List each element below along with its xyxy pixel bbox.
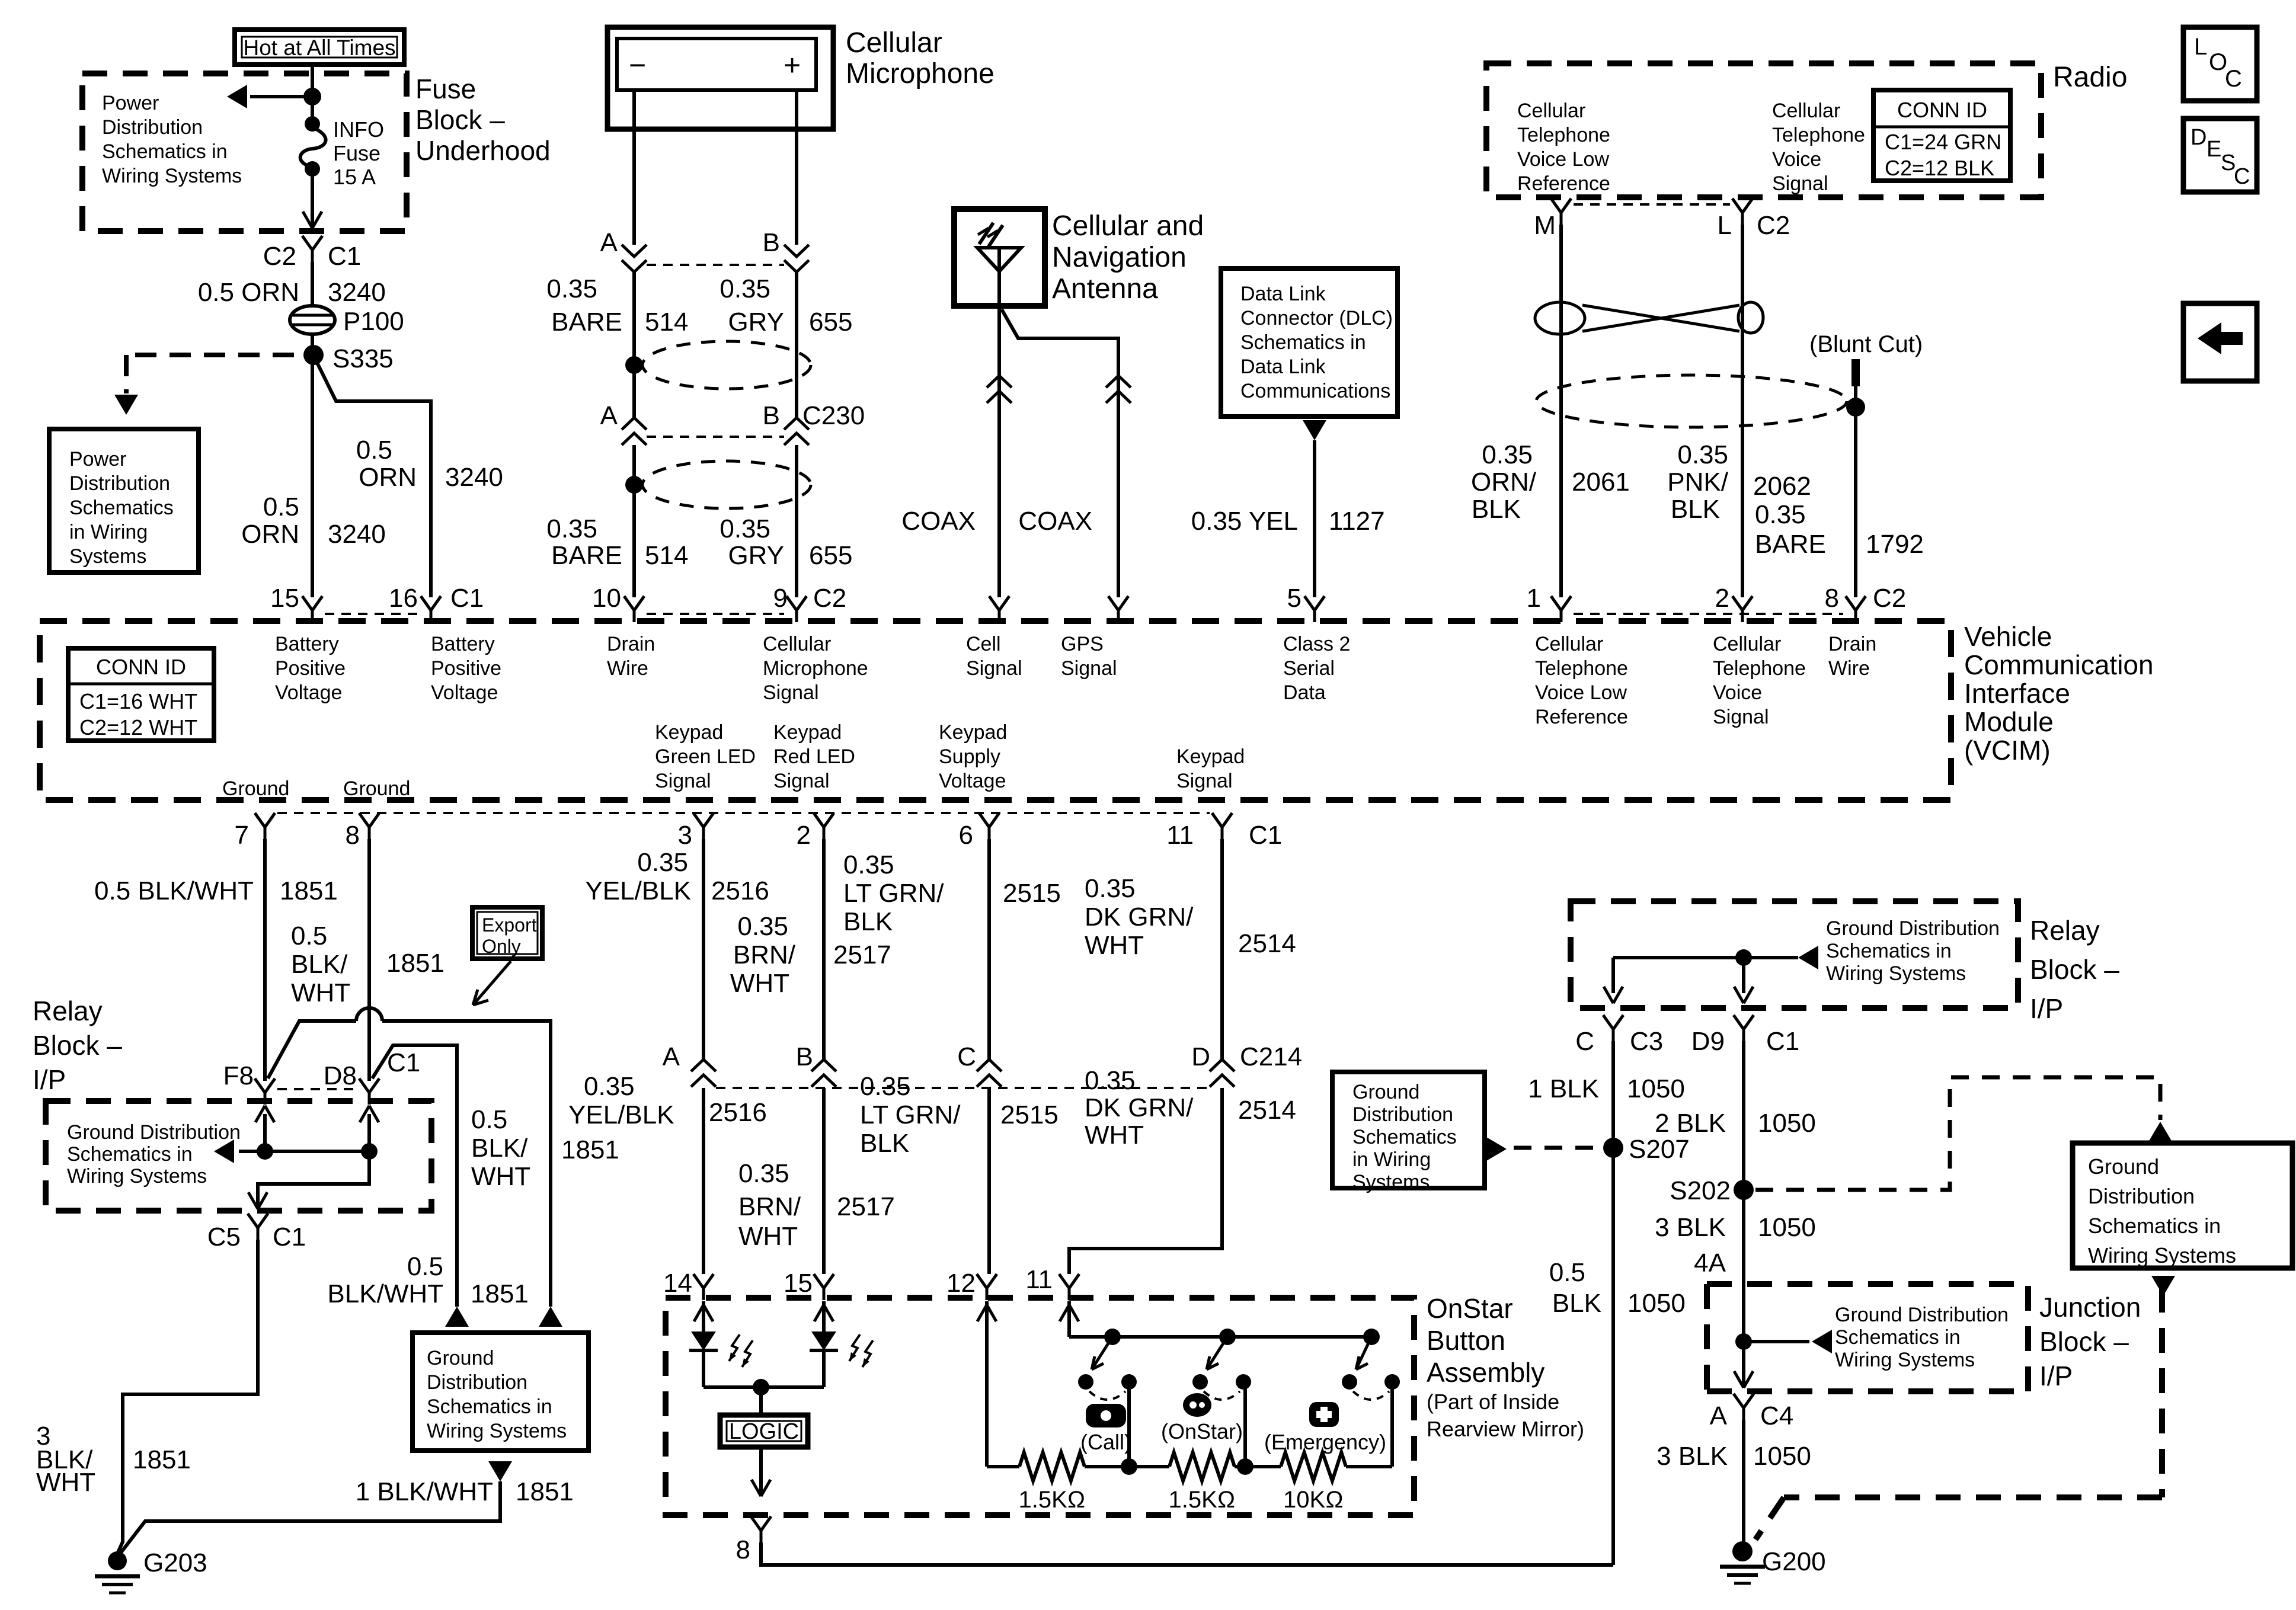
svg-text:BARE: BARE xyxy=(551,308,622,337)
junction box: Hot at All Times label xyxy=(235,30,404,65)
svg-text:in Wiring: in Wiring xyxy=(1352,1148,1431,1171)
blunt cut stub xyxy=(1851,359,1860,597)
wire 1 BLK/WHT to G203 xyxy=(121,1461,512,1553)
label 0.35 BARE 1792 xyxy=(1755,500,1924,559)
svg-text:Schematics in: Schematics in xyxy=(1240,331,1366,354)
svg-text:Positive: Positive xyxy=(431,657,501,680)
svg-text:Export: Export xyxy=(482,914,537,936)
label OnStar Button Assembly xyxy=(1427,1293,1584,1441)
svg-text:INFO: INFO xyxy=(333,117,384,142)
svg-text:GPS: GPS xyxy=(1061,633,1104,655)
pin 7 VCIM bottom xyxy=(235,813,275,850)
svg-text:1050: 1050 xyxy=(1758,1213,1816,1242)
svg-text:Ground: Ground xyxy=(343,777,410,800)
dashed link S202 to note xyxy=(1755,1077,2172,1190)
svg-text:Systems: Systems xyxy=(69,545,146,568)
svg-text:Ground: Ground xyxy=(1352,1081,1419,1103)
pin 1 VCIM xyxy=(1527,584,1571,622)
svg-text:Schematics in: Schematics in xyxy=(1826,940,1952,962)
svg-text:Signal: Signal xyxy=(655,770,711,792)
wire drain upper xyxy=(632,272,636,418)
wire cell signal coax xyxy=(997,306,1001,597)
svg-text:YEL/BLK: YEL/BLK xyxy=(568,1100,674,1129)
svg-text:(Blunt Cut): (Blunt Cut) xyxy=(1809,331,1923,357)
label keypad signal xyxy=(1176,745,1245,792)
svg-text:Battery: Battery xyxy=(431,633,495,655)
label 0.35 LT GRN/BLK 2515 upper xyxy=(843,850,1061,936)
label 0.35 GRY 655 (upper) xyxy=(720,274,852,337)
svg-text:C1=16 WHT: C1=16 WHT xyxy=(79,689,197,713)
wire keypad green upper xyxy=(702,839,705,1060)
pin M radio xyxy=(1534,199,1571,240)
svg-text:Signal: Signal xyxy=(1713,706,1769,728)
svg-text:Cell: Cell xyxy=(966,633,1001,655)
svg-text:COAX: COAX xyxy=(901,507,976,536)
wire 3240 upper segment xyxy=(311,262,314,309)
svg-text:WHT: WHT xyxy=(36,1468,95,1497)
label Relay Block IP left xyxy=(33,996,122,1095)
pin 3 VCIM bottom xyxy=(678,813,714,850)
svg-text:1050: 1050 xyxy=(1627,1074,1685,1103)
connector gps coax xyxy=(1106,376,1131,403)
label 2 BLK 1050 xyxy=(1655,1109,1816,1138)
svg-text:1 BLK/WHT: 1 BLK/WHT xyxy=(356,1477,493,1506)
label 0.35 DK GRN/WHT 2514 upper xyxy=(1085,874,1296,960)
switch emergency xyxy=(1342,1337,1400,1400)
label 0.35 BARE 514 (lower) xyxy=(546,514,688,570)
cellular microphone box xyxy=(607,27,833,129)
svg-text:BLK: BLK xyxy=(843,907,893,936)
svg-text:Schematics in: Schematics in xyxy=(427,1395,552,1418)
svg-text:1851: 1851 xyxy=(280,876,338,905)
svg-text:BRN/: BRN/ xyxy=(733,940,796,969)
svg-text:WHT: WHT xyxy=(471,1162,530,1191)
svg-text:B: B xyxy=(796,1042,813,1071)
label (Call) xyxy=(1080,1430,1131,1454)
wire mic signal lower xyxy=(795,445,798,597)
node switch feed emergency xyxy=(1363,1329,1380,1345)
svg-text:C1: C1 xyxy=(387,1048,420,1077)
svg-text:Ground Distribution: Ground Distribution xyxy=(67,1121,241,1144)
wire 1050 D9 segment xyxy=(1742,1041,1745,1542)
svg-text:Fuse: Fuse xyxy=(415,73,476,104)
wire led common xyxy=(703,1379,824,1395)
svg-text:Block –: Block – xyxy=(415,104,505,135)
note ground distribution (relay right) xyxy=(1826,917,2000,985)
svg-text:Signal: Signal xyxy=(763,681,819,704)
svg-text:8: 8 xyxy=(1825,584,1839,613)
junction block IP dashed outline xyxy=(1707,1284,2162,1539)
wire relay right bus xyxy=(1604,946,1818,1003)
svg-text:S335: S335 xyxy=(332,344,394,373)
svg-text:1050: 1050 xyxy=(1758,1109,1816,1138)
svg-text:Voice Low: Voice Low xyxy=(1535,681,1627,704)
label cellular telephone voice signal (radio) xyxy=(1772,100,1865,195)
svg-text:P100: P100 xyxy=(343,307,404,336)
svg-text:Data Link: Data Link xyxy=(1240,356,1326,378)
svg-text:0.5: 0.5 xyxy=(1549,1258,1585,1287)
svg-text:WHT: WHT xyxy=(291,978,350,1007)
splice S335 xyxy=(303,345,324,365)
svg-text:2061: 2061 xyxy=(1572,468,1630,497)
svg-text:G203: G203 xyxy=(143,1548,207,1577)
connector B C230 xyxy=(763,401,865,445)
svg-text:Wiring Systems: Wiring Systems xyxy=(1826,962,1966,985)
svg-text:Wiring Systems: Wiring Systems xyxy=(67,1165,207,1188)
svg-text:Data Link: Data Link xyxy=(1240,283,1326,305)
pin D8 relay block xyxy=(324,1048,421,1105)
svg-text:Distribution: Distribution xyxy=(69,472,170,495)
svg-text:0.5 ORN: 0.5 ORN xyxy=(198,278,299,307)
svg-text:Connector (DLC): Connector (DLC) xyxy=(1240,307,1393,329)
wire keypad green lower xyxy=(702,1088,705,1274)
shield ellipse radio pair xyxy=(1536,375,1865,427)
svg-text:BLK: BLK xyxy=(1671,495,1720,524)
svg-text:Keypad: Keypad xyxy=(939,721,1007,744)
svg-text:2515: 2515 xyxy=(1000,1100,1059,1129)
label battery positive voltage 15 xyxy=(275,633,346,704)
svg-text:Voice: Voice xyxy=(1713,681,1762,704)
svg-text:B: B xyxy=(763,228,780,257)
svg-text:Communications: Communications xyxy=(1240,380,1390,402)
label G203 xyxy=(143,1548,207,1577)
svg-text:D9: D9 xyxy=(1691,1027,1725,1056)
svg-text:1127: 1127 xyxy=(1329,507,1385,536)
pin F8 relay block xyxy=(223,1061,275,1105)
label 0.35 DK GRN/WHT 2514 lower xyxy=(1085,1066,1296,1150)
pin 14 onstar xyxy=(663,1269,714,1300)
pin 11 VCIM bottom xyxy=(1166,813,1282,850)
svg-text:15: 15 xyxy=(270,584,299,613)
wire cellular voice signal xyxy=(1741,225,1744,597)
svg-text:2 BLK: 2 BLK xyxy=(1655,1109,1726,1138)
note ground distribution (right solid box) xyxy=(2073,1143,2292,1268)
pin 5 VCIM xyxy=(1287,584,1325,622)
grommet P100 xyxy=(290,306,335,334)
svg-text:2514: 2514 xyxy=(1238,929,1296,958)
svg-text:Reference: Reference xyxy=(1517,172,1610,195)
svg-text:L: L xyxy=(2194,34,2207,60)
svg-text:1050: 1050 xyxy=(1753,1442,1811,1471)
svg-text:Ground: Ground xyxy=(2088,1154,2159,1179)
connector A C214 xyxy=(663,1042,716,1087)
node switch feed onstar xyxy=(1219,1329,1236,1345)
label class 2 serial data xyxy=(1283,633,1350,704)
label 0.35 BARE 514 (upper) xyxy=(546,274,688,337)
svg-text:Microphone: Microphone xyxy=(763,657,868,680)
svg-text:15: 15 xyxy=(784,1269,813,1298)
svg-text:11: 11 xyxy=(1025,1265,1053,1294)
connector dashes pins 10-9 xyxy=(647,613,784,615)
svg-text:Telephone: Telephone xyxy=(1535,657,1628,680)
svg-text:Ground Distribution: Ground Distribution xyxy=(1826,917,2000,940)
svg-text:9: 9 xyxy=(773,584,788,613)
icon onstar button xyxy=(1183,1393,1211,1417)
wire keypad supply lower xyxy=(987,1088,991,1274)
connector dashes mic xyxy=(647,264,784,266)
label 0.35 LT GRN/BLK 2515 lower xyxy=(860,1072,1059,1158)
svg-text:0.35: 0.35 xyxy=(584,1072,635,1101)
svg-text:Wiring Systems: Wiring Systems xyxy=(1835,1349,1975,1371)
wire junction exit xyxy=(1734,1371,1753,1388)
resistor 1.5K onstar xyxy=(1129,1452,1248,1481)
svg-text:3: 3 xyxy=(678,821,692,850)
node bus dot F8 xyxy=(257,1143,273,1160)
wire mic signal upper xyxy=(795,272,798,418)
wire keypad signal lower jog xyxy=(1069,1088,1222,1274)
label cellular microphone signal 9 xyxy=(763,633,868,704)
svg-text:16: 16 xyxy=(389,584,418,613)
svg-text:Voice: Voice xyxy=(1772,148,1821,171)
svg-text:(Emergency): (Emergency) xyxy=(1264,1430,1386,1454)
svg-text:Block –: Block – xyxy=(2039,1326,2129,1357)
svg-text:+: + xyxy=(784,49,801,82)
svg-text:Schematics in: Schematics in xyxy=(1835,1326,1961,1349)
svg-text:C: C xyxy=(957,1042,976,1071)
svg-text:Keypad: Keypad xyxy=(773,721,842,744)
note ground distribution (relay left) xyxy=(67,1121,241,1188)
label Fuse Block - Underhood xyxy=(415,73,551,166)
pin 2 VCIM bottom xyxy=(797,813,834,850)
svg-text:514: 514 xyxy=(645,308,688,337)
svg-text:Wiring Systems: Wiring Systems xyxy=(2088,1243,2236,1267)
pin C5/C1 relay block xyxy=(207,1214,306,1251)
svg-text:Button: Button xyxy=(1427,1325,1505,1356)
svg-text:0.35 YEL: 0.35 YEL xyxy=(1191,507,1298,536)
svg-text:1.5KΩ: 1.5KΩ xyxy=(1168,1487,1235,1513)
svg-text:A: A xyxy=(600,401,618,430)
svg-text:Rearview Mirror): Rearview Mirror) xyxy=(1427,1417,1584,1441)
svg-text:2516: 2516 xyxy=(709,1098,767,1127)
svg-text:Block –: Block – xyxy=(2030,954,2119,985)
node bus dot D8 xyxy=(361,1143,378,1160)
pin 11 onstar xyxy=(1025,1265,1079,1300)
label (Blunt Cut) xyxy=(1809,331,1923,357)
svg-text:Wiring Systems: Wiring Systems xyxy=(102,165,242,187)
svg-text:0.5: 0.5 xyxy=(407,1252,443,1281)
svg-text:C214: C214 xyxy=(1240,1042,1302,1071)
svg-text:8: 8 xyxy=(346,821,360,850)
loc box xyxy=(2183,27,2257,101)
svg-text:1: 1 xyxy=(1527,584,1541,613)
label 0.35 YEL/BLK 2516 lower xyxy=(568,1072,767,1129)
svg-text:3240: 3240 xyxy=(445,463,503,492)
label 0.35 ORN/BLK 2061 xyxy=(1471,440,1630,524)
svg-text:1851: 1851 xyxy=(516,1477,574,1506)
svg-text:Telephone: Telephone xyxy=(1517,124,1610,146)
conn id table VCIM xyxy=(68,648,214,741)
svg-text:Radio: Radio xyxy=(2053,62,2127,93)
label cell signal xyxy=(966,633,1022,680)
node relay right bus dot xyxy=(1734,949,1753,1003)
pin 6 VCIM bottom xyxy=(959,813,999,850)
wire class 2 serial data xyxy=(1313,440,1316,597)
svg-text:Vehicle: Vehicle xyxy=(1964,621,2052,652)
svg-text:Navigation: Navigation xyxy=(1052,242,1187,273)
svg-text:0.35: 0.35 xyxy=(1085,874,1136,903)
label Relay Block IP right xyxy=(2030,915,2119,1024)
svg-text:BLK: BLK xyxy=(860,1129,909,1158)
svg-text:C1: C1 xyxy=(450,584,484,613)
note ground distribution (junction) xyxy=(1835,1304,2009,1371)
wire F8 stub xyxy=(255,1106,274,1151)
label 4A xyxy=(1694,1249,1726,1278)
twisted pair symbol xyxy=(1535,302,1763,334)
svg-text:D: D xyxy=(1191,1042,1210,1071)
relay block IP dashed box left xyxy=(46,1101,431,1211)
svg-text:3 BLK: 3 BLK xyxy=(1657,1442,1728,1471)
svg-text:Data: Data xyxy=(1283,681,1326,704)
wire pin8 return xyxy=(761,1542,1613,1565)
svg-text:2: 2 xyxy=(797,821,811,850)
svg-text:5: 5 xyxy=(1287,584,1302,613)
svg-text:(Part of Inside: (Part of Inside xyxy=(1427,1390,1559,1414)
svg-text:C2: C2 xyxy=(813,584,846,613)
svg-text:3240: 3240 xyxy=(328,520,386,549)
label 0.35 PNK/BLK 2062 xyxy=(1667,440,1811,524)
pin L radio xyxy=(1718,199,1790,240)
label keypad red led signal xyxy=(773,721,855,792)
wire jumper from D8 xyxy=(372,1045,469,1327)
svg-text:GRY: GRY xyxy=(728,308,784,337)
svg-text:BLK: BLK xyxy=(1472,495,1521,524)
label P100 xyxy=(343,307,404,336)
svg-text:0.35: 0.35 xyxy=(1085,1066,1136,1095)
svg-text:F8: F8 xyxy=(223,1061,254,1090)
svg-text:Cellular: Cellular xyxy=(1517,100,1585,122)
svg-text:14: 14 xyxy=(663,1269,692,1298)
svg-text:ORN: ORN xyxy=(241,520,299,549)
svg-text:Systems: Systems xyxy=(1352,1171,1430,1193)
svg-text:Only: Only xyxy=(482,936,521,957)
svg-text:I/P: I/P xyxy=(2030,993,2063,1024)
label COAX gps xyxy=(1018,507,1092,536)
svg-text:1851: 1851 xyxy=(386,949,445,978)
svg-text:C: C xyxy=(2234,164,2250,189)
svg-text:WHT: WHT xyxy=(1085,931,1144,960)
svg-text:LT GRN/: LT GRN/ xyxy=(843,879,944,908)
svg-text:Assembly: Assembly xyxy=(1427,1357,1544,1388)
svg-text:WHT: WHT xyxy=(738,1222,798,1251)
pin C/C3 relay right xyxy=(1575,1015,1663,1056)
svg-text:Ground: Ground xyxy=(222,777,289,800)
svg-text:Communication: Communication xyxy=(1964,649,2154,680)
svg-text:Ground Distribution: Ground Distribution xyxy=(1835,1304,2009,1326)
label 0.5 BLK/WHT 1851 wire8 xyxy=(291,921,445,1007)
wire gps signal coax xyxy=(1002,309,1118,597)
pin 9 VCIM xyxy=(773,584,847,622)
pin 8 VCIM drain xyxy=(1825,584,1907,622)
label drain wire 8 xyxy=(1828,633,1876,680)
svg-text:Reference: Reference xyxy=(1535,706,1628,728)
svg-text:PNK/: PNK/ xyxy=(1667,468,1728,497)
splice S207 xyxy=(1603,1135,1690,1164)
svg-text:BLK/: BLK/ xyxy=(471,1134,528,1163)
svg-text:C4: C4 xyxy=(1760,1401,1793,1430)
svg-text:I/P: I/P xyxy=(2039,1361,2073,1391)
label 1.5K ohm onstar xyxy=(1168,1487,1235,1513)
VCIM dashed box xyxy=(40,621,1951,800)
label Vehicle Communication Interface Module VCIM xyxy=(1964,621,2154,766)
svg-text:LOGIC: LOGIC xyxy=(729,1419,799,1444)
svg-text:Voice Low: Voice Low xyxy=(1517,148,1609,171)
label cellular telephone voice low reference (radio) xyxy=(1517,100,1610,195)
svg-text:1.5KΩ: 1.5KΩ xyxy=(1018,1487,1085,1513)
connector D C214 xyxy=(1191,1042,1302,1087)
svg-text:Telephone: Telephone xyxy=(1772,124,1865,146)
svg-text:C1: C1 xyxy=(328,242,361,271)
arrow from note to junction block xyxy=(2151,1276,2175,1296)
svg-text:Signal: Signal xyxy=(1061,657,1117,680)
pin 10 VCIM xyxy=(592,584,644,622)
connector dashes F8-D8 xyxy=(277,1088,357,1090)
shield ellipse lower xyxy=(625,461,811,508)
svg-text:Module: Module xyxy=(1964,706,2054,737)
svg-text:Relay: Relay xyxy=(33,996,103,1026)
conn id table radio xyxy=(1873,90,2010,181)
svg-text:Voltage: Voltage xyxy=(431,681,498,704)
svg-text:C2: C2 xyxy=(263,242,296,271)
cellular and navigation antenna box xyxy=(954,209,1045,306)
svg-text:COAX: COAX xyxy=(1018,507,1092,536)
svg-text:2517: 2517 xyxy=(833,940,891,969)
svg-text:0.5: 0.5 xyxy=(471,1105,507,1134)
svg-text:CONN ID: CONN ID xyxy=(1897,98,1987,122)
connector A C230 xyxy=(600,401,647,445)
svg-text:1851: 1851 xyxy=(471,1279,529,1308)
svg-text:655: 655 xyxy=(809,541,852,570)
svg-text:0.35: 0.35 xyxy=(738,1159,789,1188)
wire export jumper from F8 xyxy=(268,1008,562,1327)
label Radio xyxy=(2053,62,2127,93)
svg-text:0.35: 0.35 xyxy=(720,274,770,303)
switch call xyxy=(1078,1337,1137,1400)
svg-text:A: A xyxy=(600,228,618,257)
label 0.35 GRY 655 (lower) xyxy=(720,514,852,570)
connector dashes C214 xyxy=(716,1087,1210,1089)
svg-text:514: 514 xyxy=(645,541,688,570)
svg-text:Voltage: Voltage xyxy=(939,770,1006,792)
wire onstar contact xyxy=(1243,1382,1247,1467)
svg-text:1 BLK: 1 BLK xyxy=(1528,1074,1599,1103)
svg-text:Signal: Signal xyxy=(1772,172,1828,195)
svg-text:0.35: 0.35 xyxy=(546,274,597,303)
connector dashes pins 15-16 xyxy=(325,613,419,615)
dashed branch to power distribution note xyxy=(114,355,301,415)
svg-text:0.5 BLK/WHT: 0.5 BLK/WHT xyxy=(94,876,254,905)
pin 8 VCIM bottom xyxy=(346,813,379,850)
svg-text:BARE: BARE xyxy=(551,541,622,570)
svg-text:Schematics: Schematics xyxy=(69,497,174,519)
relay block IP dashed box right xyxy=(1571,901,2018,1008)
label 1 BLK 1050 xyxy=(1528,1074,1685,1103)
svg-text:Block –: Block – xyxy=(33,1030,122,1061)
wire mic plus lead xyxy=(795,90,798,245)
svg-text:C: C xyxy=(2225,66,2242,92)
svg-text:Keypad: Keypad xyxy=(1176,745,1245,768)
ground G203 xyxy=(95,1551,140,1593)
shield ellipse upper xyxy=(625,341,811,389)
svg-text:Green LED: Green LED xyxy=(655,745,756,768)
svg-text:2516: 2516 xyxy=(711,876,769,905)
svg-text:1851: 1851 xyxy=(561,1135,619,1164)
svg-text:D8: D8 xyxy=(324,1061,357,1090)
svg-text:Battery: Battery xyxy=(275,633,339,655)
svg-text:Drain: Drain xyxy=(1828,633,1876,655)
svg-text:CONN ID: CONN ID xyxy=(96,655,186,679)
label battery positive voltage 16 xyxy=(431,633,501,704)
svg-text:Cellular: Cellular xyxy=(1535,633,1603,655)
